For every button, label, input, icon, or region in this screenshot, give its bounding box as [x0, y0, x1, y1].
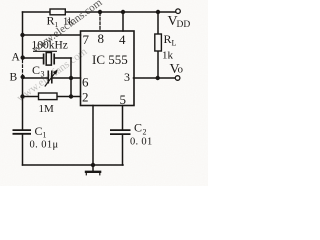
op IC 555 box — [81, 31, 135, 106]
wire pin7 row — [23, 34, 81, 36]
wire A-B dashed link — [22, 60, 24, 75]
wire crystal to corner — [55, 57, 72, 59]
wire 1M row right / pin2 — [57, 96, 81, 98]
label Vo — [170, 62, 184, 77]
wire crystal row — [23, 57, 44, 59]
wire 1M row left — [23, 96, 39, 98]
wire C3 row left — [23, 77, 48, 79]
resistor RL — [155, 34, 162, 51]
junction pin4-topwire — [121, 10, 125, 14]
wire pin5 — [122, 106, 124, 130]
wire left rail mid — [22, 77, 24, 130]
wire pin8 dashed — [99, 13, 101, 31]
ground — [85, 165, 102, 175]
junction pin3-Vo — [156, 76, 160, 80]
resistor R1 — [50, 9, 65, 15]
junction 1M-pin2 — [69, 94, 73, 98]
label C3 — [32, 63, 45, 79]
junction pin8-topwire — [98, 10, 102, 14]
label 100kHz underline — [33, 50, 57, 52]
wire C2 bottom lead — [122, 135, 124, 165]
crystal 100kHz — [44, 53, 55, 66]
wire left rail upper — [22, 12, 24, 58]
wire left rail lower — [22, 134, 24, 165]
label C1 — [35, 124, 47, 140]
node B junction — [21, 75, 25, 79]
wire pin4 — [122, 12, 124, 31]
watermark — [15, 0, 105, 104]
wire mid vertical — [70, 58, 72, 97]
wire bottom rail — [23, 164, 124, 166]
label RL — [164, 32, 177, 48]
wire pin3 row — [134, 77, 176, 79]
wire RL top lead — [157, 12, 159, 34]
wire C3 row right / pin6 — [52, 77, 80, 79]
capacitor C1 — [13, 130, 32, 134]
junction C3-pin6 — [69, 76, 73, 80]
wire top rail — [23, 11, 176, 13]
junction pin7-rail — [20, 33, 24, 37]
junction 1M-rail — [20, 94, 24, 98]
terminal VDD — [176, 9, 181, 14]
capacitor C2 — [110, 130, 131, 134]
resistor 1M — [39, 93, 58, 100]
label C2 — [134, 121, 147, 137]
node A junction — [21, 55, 25, 59]
junction RL-topwire — [156, 10, 160, 14]
label VDD — [168, 14, 191, 30]
wire pin1 — [92, 106, 94, 166]
wire RL bottom lead — [157, 51, 159, 78]
label R1 1k — [47, 14, 75, 30]
capacitor C3 (variable) — [45, 71, 56, 87]
junction ground-rail — [91, 163, 95, 167]
terminal Vo — [175, 76, 180, 81]
